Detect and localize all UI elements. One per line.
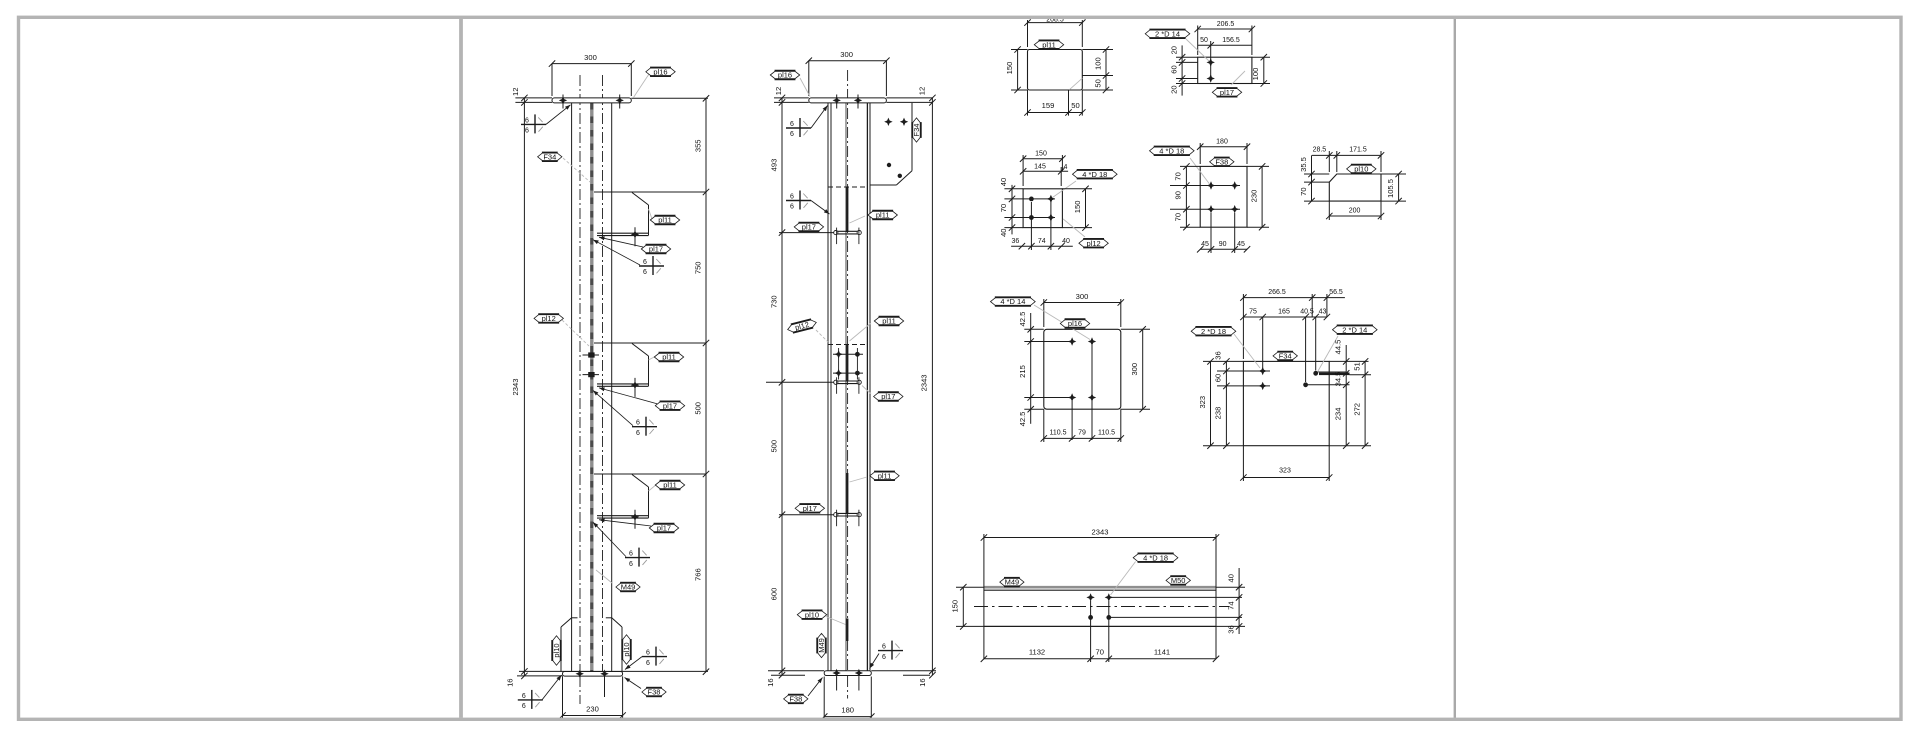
svg-text:pl17: pl17 bbox=[657, 524, 671, 533]
svg-text:110.5: 110.5 bbox=[1050, 429, 1067, 436]
svg-text:6: 6 bbox=[636, 420, 640, 427]
svg-text:750: 750 bbox=[693, 261, 702, 274]
svg-text:M50: M50 bbox=[1171, 576, 1186, 585]
svg-text:42.5: 42.5 bbox=[1018, 412, 1027, 427]
svg-text:2343: 2343 bbox=[511, 379, 520, 396]
svg-text:pl12: pl12 bbox=[1087, 239, 1101, 248]
svg-text:50: 50 bbox=[1200, 37, 1208, 44]
svg-text:156.5: 156.5 bbox=[1222, 37, 1240, 44]
svg-text:4 *D 18: 4 *D 18 bbox=[1082, 170, 1107, 179]
svg-text:70: 70 bbox=[1299, 187, 1308, 195]
svg-text:180: 180 bbox=[841, 706, 854, 715]
svg-text:12: 12 bbox=[511, 87, 520, 95]
svg-text:300: 300 bbox=[1076, 292, 1089, 301]
svg-text:6: 6 bbox=[790, 131, 794, 138]
svg-text:6: 6 bbox=[629, 551, 633, 558]
svg-text:pl11: pl11 bbox=[663, 481, 677, 490]
svg-text:4 *D 14: 4 *D 14 bbox=[1000, 297, 1025, 306]
svg-text:40: 40 bbox=[1062, 238, 1070, 245]
svg-text:600: 600 bbox=[769, 588, 778, 601]
svg-text:206.5: 206.5 bbox=[1217, 21, 1235, 28]
svg-text:4 *D 18: 4 *D 18 bbox=[1143, 553, 1168, 562]
svg-text:45: 45 bbox=[1201, 241, 1209, 248]
svg-text:300: 300 bbox=[1130, 363, 1139, 376]
svg-text:6: 6 bbox=[522, 703, 526, 710]
svg-text:1132: 1132 bbox=[1029, 648, 1045, 657]
svg-text:pl11: pl11 bbox=[878, 471, 892, 480]
svg-text:230: 230 bbox=[586, 705, 599, 714]
svg-text:6: 6 bbox=[646, 650, 650, 657]
svg-text:2 *D 18: 2 *D 18 bbox=[1201, 327, 1226, 336]
svg-text:12: 12 bbox=[774, 87, 783, 95]
svg-text:2343: 2343 bbox=[920, 374, 929, 391]
svg-text:105.5: 105.5 bbox=[1386, 179, 1395, 198]
svg-text:355: 355 bbox=[693, 139, 702, 152]
svg-text:pl12: pl12 bbox=[542, 314, 556, 323]
svg-text:pl10: pl10 bbox=[1354, 165, 1368, 174]
svg-text:6: 6 bbox=[522, 693, 526, 700]
svg-text:500: 500 bbox=[769, 440, 778, 453]
svg-text:F38: F38 bbox=[789, 695, 802, 704]
svg-text:74: 74 bbox=[1226, 601, 1235, 609]
svg-text:6: 6 bbox=[790, 204, 794, 211]
svg-text:2343: 2343 bbox=[1092, 527, 1109, 536]
svg-text:16: 16 bbox=[766, 678, 775, 686]
svg-text:75: 75 bbox=[1249, 309, 1257, 316]
svg-text:50: 50 bbox=[1093, 79, 1102, 87]
svg-text:165: 165 bbox=[1278, 309, 1290, 316]
svg-text:42.5: 42.5 bbox=[1018, 312, 1027, 327]
svg-text:60: 60 bbox=[1214, 374, 1223, 382]
svg-text:323: 323 bbox=[1279, 468, 1291, 475]
svg-text:6: 6 bbox=[643, 269, 647, 276]
svg-text:6: 6 bbox=[790, 194, 794, 201]
svg-text:323: 323 bbox=[1198, 396, 1207, 409]
svg-text:12: 12 bbox=[918, 87, 927, 95]
svg-text:230: 230 bbox=[1249, 190, 1258, 203]
svg-text:M49: M49 bbox=[621, 583, 636, 592]
svg-text:766: 766 bbox=[693, 568, 702, 581]
svg-text:pl11: pl11 bbox=[662, 353, 676, 362]
svg-text:40: 40 bbox=[999, 178, 1008, 186]
svg-text:70: 70 bbox=[1174, 213, 1183, 221]
svg-text:234: 234 bbox=[1334, 408, 1343, 421]
svg-text:6: 6 bbox=[643, 259, 647, 266]
svg-text:180: 180 bbox=[1216, 139, 1228, 146]
svg-text:M49: M49 bbox=[817, 638, 826, 653]
svg-text:70: 70 bbox=[999, 204, 1008, 212]
svg-text:200: 200 bbox=[1349, 207, 1361, 214]
svg-text:300: 300 bbox=[584, 53, 597, 62]
svg-text:4: 4 bbox=[1064, 164, 1068, 171]
svg-text:60: 60 bbox=[1169, 65, 1178, 73]
svg-text:2 *D 14: 2 *D 14 bbox=[1155, 29, 1180, 38]
svg-text:70: 70 bbox=[1095, 648, 1103, 657]
svg-text:40.5: 40.5 bbox=[1300, 309, 1314, 316]
svg-text:F34: F34 bbox=[912, 124, 921, 137]
svg-text:pl10: pl10 bbox=[622, 642, 631, 656]
svg-text:150: 150 bbox=[1073, 201, 1082, 214]
svg-text:51: 51 bbox=[1352, 362, 1361, 370]
svg-text:F38: F38 bbox=[1215, 157, 1228, 166]
svg-text:36: 36 bbox=[1012, 238, 1020, 245]
svg-text:34.5: 34.5 bbox=[1334, 372, 1343, 387]
svg-text:pl17: pl17 bbox=[803, 504, 817, 513]
svg-text:150: 150 bbox=[1005, 62, 1014, 75]
svg-text:90: 90 bbox=[1219, 241, 1227, 248]
svg-text:6: 6 bbox=[790, 121, 794, 128]
svg-text:43: 43 bbox=[1319, 309, 1327, 316]
svg-text:pl16: pl16 bbox=[1068, 319, 1082, 328]
svg-text:40: 40 bbox=[999, 228, 1008, 236]
svg-text:pl11: pl11 bbox=[658, 216, 672, 225]
svg-text:F34: F34 bbox=[1279, 352, 1292, 361]
svg-text:6: 6 bbox=[646, 660, 650, 667]
svg-text:20: 20 bbox=[1169, 85, 1178, 93]
svg-text:20: 20 bbox=[1169, 46, 1178, 54]
svg-text:pl17: pl17 bbox=[1220, 88, 1234, 97]
svg-text:266.5: 266.5 bbox=[1268, 289, 1286, 296]
svg-text:272: 272 bbox=[1352, 403, 1361, 416]
svg-text:6: 6 bbox=[629, 561, 633, 568]
svg-text:500: 500 bbox=[693, 402, 702, 415]
svg-text:6: 6 bbox=[525, 117, 529, 124]
svg-text:M49: M49 bbox=[1005, 578, 1020, 587]
svg-text:56.5: 56.5 bbox=[1329, 289, 1343, 296]
svg-text:pl17: pl17 bbox=[649, 245, 663, 254]
svg-text:74: 74 bbox=[1038, 238, 1046, 245]
svg-text:100: 100 bbox=[1251, 68, 1260, 81]
svg-text:150: 150 bbox=[1035, 151, 1047, 158]
svg-text:pl17: pl17 bbox=[881, 392, 895, 401]
svg-text:238: 238 bbox=[1214, 407, 1223, 420]
svg-text:pl11: pl11 bbox=[876, 211, 890, 220]
svg-text:6: 6 bbox=[525, 128, 529, 135]
svg-text:40: 40 bbox=[1226, 574, 1235, 582]
svg-text:pl11: pl11 bbox=[1042, 40, 1056, 49]
svg-text:28.5: 28.5 bbox=[1313, 146, 1327, 153]
svg-text:79: 79 bbox=[1078, 429, 1086, 436]
svg-text:pl16: pl16 bbox=[653, 67, 667, 76]
svg-text:300: 300 bbox=[840, 50, 853, 59]
svg-text:90: 90 bbox=[1174, 191, 1183, 199]
svg-text:pl10: pl10 bbox=[805, 610, 819, 619]
svg-text:6: 6 bbox=[636, 430, 640, 437]
svg-text:730: 730 bbox=[769, 295, 778, 308]
svg-text:pl10: pl10 bbox=[552, 643, 561, 657]
svg-text:35.5: 35.5 bbox=[1299, 157, 1308, 172]
svg-text:36: 36 bbox=[1214, 351, 1223, 359]
svg-text:171.5: 171.5 bbox=[1349, 146, 1367, 153]
svg-text:150: 150 bbox=[951, 600, 960, 613]
svg-text:159: 159 bbox=[1042, 101, 1055, 110]
svg-text:16: 16 bbox=[506, 678, 515, 686]
svg-text:110.5: 110.5 bbox=[1098, 429, 1115, 436]
svg-text:215: 215 bbox=[1018, 365, 1027, 378]
svg-text:4 *D 18: 4 *D 18 bbox=[1159, 146, 1184, 155]
svg-text:F34: F34 bbox=[543, 152, 556, 161]
svg-text:36: 36 bbox=[1226, 625, 1235, 633]
svg-text:70: 70 bbox=[1174, 172, 1183, 180]
svg-text:100: 100 bbox=[1093, 57, 1102, 70]
svg-text:pl17: pl17 bbox=[802, 223, 816, 232]
svg-text:16: 16 bbox=[918, 678, 927, 686]
svg-text:45: 45 bbox=[1237, 241, 1245, 248]
svg-text:44.5: 44.5 bbox=[1334, 340, 1343, 355]
svg-text:6: 6 bbox=[882, 654, 886, 661]
svg-text:1141: 1141 bbox=[1154, 648, 1170, 657]
svg-text:50: 50 bbox=[1071, 101, 1079, 110]
svg-text:pl17: pl17 bbox=[663, 401, 677, 410]
svg-text:493: 493 bbox=[769, 159, 778, 172]
svg-text:pl11: pl11 bbox=[882, 317, 896, 326]
svg-text:F38: F38 bbox=[648, 688, 661, 697]
svg-text:2 *D 14: 2 *D 14 bbox=[1342, 325, 1367, 334]
svg-text:145: 145 bbox=[1034, 163, 1046, 170]
svg-text:6: 6 bbox=[882, 644, 886, 651]
svg-text:pl16: pl16 bbox=[778, 71, 792, 80]
